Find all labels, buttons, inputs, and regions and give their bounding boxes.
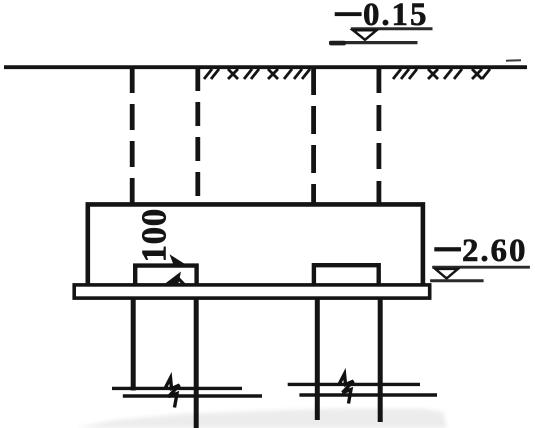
elevation marker -0.15 text — [335, 0, 429, 33]
pile 2 left edge — [315, 298, 320, 420]
svg-text:100: 100 — [135, 208, 174, 262]
soil hatch group B — [393, 69, 490, 79]
pile 1 left edge — [131, 298, 136, 391]
break line A lower — [123, 394, 262, 397]
elevation marker -0.15 level line — [351, 27, 433, 30]
pile 1 right edge — [194, 298, 199, 428]
pile outline hidden (dashed) line 4 — [376, 67, 381, 204]
elevation marker -2.60 level line — [432, 266, 530, 269]
svg-text:2.60: 2.60 — [462, 233, 527, 269]
break line A upper — [112, 387, 242, 390]
elevation marker -2.60 ref line — [430, 279, 484, 282]
scan blob on ref line left end — [329, 41, 346, 46]
pile outline hidden (dashed) line 2 — [195, 67, 200, 204]
cushion band — [74, 285, 430, 298]
pile outline hidden (dashed) line 3 — [311, 67, 316, 204]
elevation marker -0.15 ground ref line — [329, 41, 417, 44]
soil hatch group A — [204, 69, 310, 79]
pile head embedded rect 2 — [314, 265, 379, 284]
elevation marker -2.60 triangle — [435, 269, 458, 279]
elevation marker -2.60 text — [434, 233, 527, 269]
pile outline hidden (dashed) line 1 — [130, 67, 135, 204]
scan speck above ground line right — [506, 59, 521, 62]
pile 2 right edge — [378, 298, 383, 422]
break A zigzag — [165, 378, 180, 408]
ground line — [4, 65, 527, 69]
dimension arrowhead lower — [163, 272, 182, 289]
break line B lower — [299, 393, 437, 396]
break line B upper — [288, 383, 420, 386]
elevation marker -0.15 triangle — [353, 30, 377, 40]
pile cap outline — [88, 204, 423, 284]
break B zigzag — [339, 374, 354, 404]
pile head embedded rect 1 — [135, 266, 196, 284]
dimension leader tail lower diagonal — [176, 276, 197, 298]
dimension arrowhead upper — [170, 254, 187, 266]
